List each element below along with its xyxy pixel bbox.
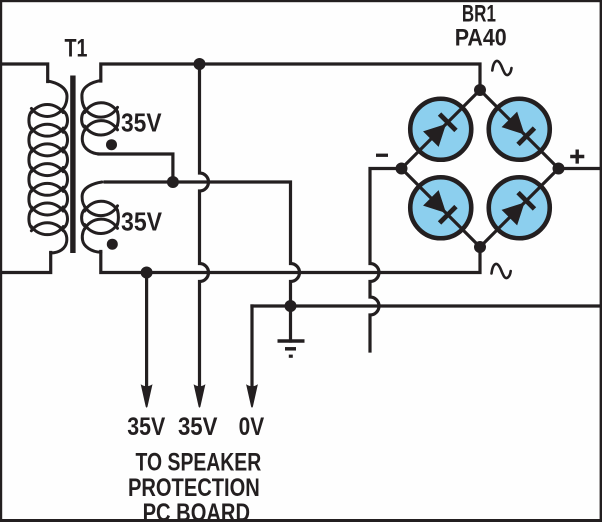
svg-text:35V: 35V xyxy=(178,413,218,441)
transformer T1 primary winding xyxy=(29,81,68,253)
wire plus output: right vertex to image edge xyxy=(559,167,599,170)
node: plus vertex xyxy=(553,163,565,175)
svg-text:PROTECTION: PROTECTION xyxy=(128,474,260,502)
node: ground rail junction xyxy=(285,300,297,312)
node: bottom wire / 35V-A junction xyxy=(141,267,153,279)
wire secondary1 bottom to center tap corner xyxy=(99,154,173,182)
polarity dot secondary 1 xyxy=(106,139,117,150)
diode D4 (bottom-right) xyxy=(489,177,550,238)
wire secondary2 top: winding to center tap junction xyxy=(105,180,173,183)
wire minus output: left vertex down, hops over two wires, cropped end xyxy=(370,169,402,352)
minus sign xyxy=(376,154,388,157)
svg-text:35V: 35V xyxy=(121,110,162,138)
node: top wire / 35V-B junction xyxy=(194,58,206,70)
plus sign xyxy=(570,150,584,164)
wire ground rail: 0V corner right to image edge xyxy=(252,304,599,307)
svg-text:T1: T1 xyxy=(65,35,88,63)
AC sine symbol top xyxy=(492,61,511,75)
svg-text:TO SPEAKER: TO SPEAKER xyxy=(136,449,262,477)
wire center tap: junction to ground drop xyxy=(173,182,300,341)
wire 35V line B: top-wire junction down to arrow, hops over two wires xyxy=(200,64,209,386)
wire primary top: left edge to transformer xyxy=(2,64,48,82)
node: bottom AC vertex xyxy=(474,241,486,253)
diode D1 (top-left) xyxy=(410,99,471,160)
diode D2 (top-right) xyxy=(489,99,550,160)
bridge rectifier BR1 diamond edges xyxy=(402,90,559,247)
svg-text:PC BOARD: PC BOARD xyxy=(143,499,250,522)
AC sine symbol bottom xyxy=(492,264,511,278)
wire secondary2 bottom / bottom AC: winding to bridge bottom vertex xyxy=(101,247,480,273)
svg-text:PA40: PA40 xyxy=(455,24,507,51)
transformer T1 secondary winding 1 (top, 35V) xyxy=(82,81,119,155)
wire top AC: transformer secondary top to bridge top vertex xyxy=(101,64,480,90)
arrow 0V xyxy=(246,384,258,407)
node: top AC vertex xyxy=(474,84,486,96)
arrow 35V A xyxy=(141,384,153,407)
svg-text:35V: 35V xyxy=(127,413,165,441)
node: minus vertex xyxy=(396,163,408,175)
wire 0V line: ground wire corner down to arrow xyxy=(250,306,253,386)
svg-text:0V: 0V xyxy=(239,413,265,441)
transformer T1 secondary winding 2 (bottom, 35V) xyxy=(82,182,119,252)
ground symbol xyxy=(278,341,305,356)
node: center tap junction xyxy=(167,176,179,188)
wire 35V line A: bottom-wire junction down to arrow xyxy=(145,273,148,387)
transformer T1 core xyxy=(70,76,75,254)
polarity dot secondary 2 xyxy=(107,239,118,250)
wire primary bottom: transformer to left edge xyxy=(2,253,51,273)
svg-text:35V: 35V xyxy=(121,208,162,236)
arrow 35V B xyxy=(194,384,206,407)
diode D3 (bottom-left) xyxy=(410,177,471,238)
